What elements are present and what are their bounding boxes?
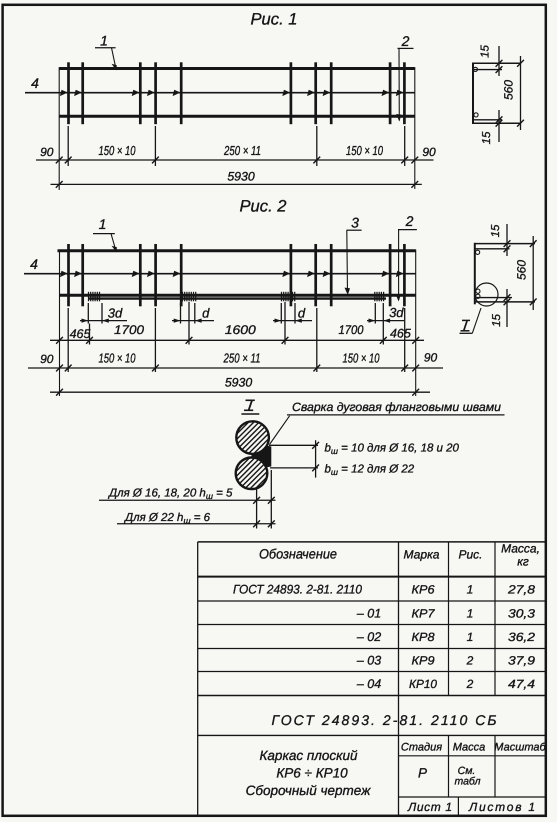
fig2 stirrup 6: [290, 244, 293, 306]
fig2 middle bar (item 4): [24, 273, 416, 275]
table data row 1: [198, 582, 546, 601]
fig1 right end line: [414, 67, 416, 189]
fig1 stirrup 7: [314, 62, 317, 124]
svg-text:Сборочный чертеж: Сборочный чертеж: [246, 783, 371, 798]
svg-text:КР6: КР6: [412, 582, 435, 596]
svg-text:– 03: – 03: [356, 654, 381, 668]
svg-text:15: 15: [480, 45, 492, 58]
fig2 stirrup 7: [314, 244, 317, 306]
svg-text:90: 90: [40, 145, 54, 159]
svg-text:1: 1: [467, 606, 474, 620]
fig2 section bottom bars: [476, 289, 480, 293]
svg-text:кг: кг: [517, 555, 529, 569]
svg-text:– 04: – 04: [356, 677, 381, 691]
table GOST CB row: [198, 712, 546, 735]
svg-text:Каркас плоский: Каркас плоский: [259, 748, 358, 763]
svg-text:27,8: 27,8: [507, 582, 536, 596]
svg-text:36,2: 36,2: [508, 630, 535, 644]
fig2 stirrup 2: [81, 244, 84, 306]
fig1 stirrup 6: [290, 62, 293, 124]
fig1 stirrup 1: [67, 62, 70, 124]
fig2 section dim 15 bottom: [491, 289, 510, 327]
svg-text:37,9: 37,9: [508, 654, 535, 668]
fig2 top chord bar: [58, 249, 416, 252]
table data row 2: [198, 606, 546, 624]
svg-text:2: 2: [405, 213, 414, 229]
fig2 stirrup 3: [139, 244, 142, 306]
fig2 section bottom bar line: [475, 297, 512, 299]
fig2 section top edge: [475, 243, 535, 245]
svg-text:КР8: КР8: [412, 630, 435, 644]
svg-text:Рис. 1: Рис. 1: [251, 11, 298, 29]
fig1 section bottom bar line: [473, 119, 502, 121]
svg-text:2: 2: [466, 677, 474, 691]
fig1 stirrup 10: [403, 62, 406, 124]
svg-text:Рис. 2: Рис. 2: [240, 198, 287, 216]
svg-text:90: 90: [424, 351, 438, 365]
fig1 middle bar (item 4): [25, 92, 415, 94]
svg-text:250 × 11: 250 × 11: [223, 143, 261, 158]
fig2 label 3: [345, 214, 362, 295]
svg-text:1: 1: [467, 630, 474, 644]
svg-text:Листов 1: Листов 1: [468, 800, 535, 814]
fig1 section bottom bar: [474, 113, 478, 117]
fig1 stirrup 2: [81, 62, 84, 124]
svg-text:2: 2: [466, 654, 474, 668]
fig2 stirrup 10: [403, 244, 406, 306]
fig2 additional bar (item 3): [88, 297, 386, 299]
fig1 top chord bar: [59, 67, 415, 70]
fig2 dimension row C (5930): [50, 376, 430, 396]
fig2 left end line: [59, 250, 61, 397]
svg-text:КР7: КР7: [412, 606, 436, 620]
fig2 dimension row A (465/1700/1600/1700/465): [50, 323, 424, 344]
svg-text:d: d: [202, 306, 210, 321]
svg-text:3d: 3d: [389, 305, 404, 320]
fig2 extension lines row B: [68, 308, 405, 372]
weld detail bottom bar circle: [236, 458, 268, 490]
fig1 dimension line 5930: [51, 170, 422, 188]
fig2 label 2: [396, 213, 417, 301]
table header row: [198, 542, 546, 577]
svg-text:4: 4: [30, 256, 38, 272]
svg-text:465: 465: [390, 327, 411, 341]
weld h droplines: [257, 470, 272, 529]
weld detail top bar circle: [236, 421, 269, 454]
svg-text:Масса,: Масса,: [501, 542, 540, 556]
fig1 stirrup 4: [154, 62, 157, 124]
weld fillet (black): [252, 443, 272, 470]
table data row 5: [198, 677, 546, 695]
svg-text:1: 1: [100, 33, 108, 49]
fig2 stirrup 8: [330, 244, 333, 306]
fig1 extension lines: [68, 126, 405, 166]
fig2 mini-dim d (lap 2): [172, 303, 214, 324]
svg-text:90: 90: [422, 145, 436, 159]
svg-text:4: 4: [31, 75, 39, 91]
fig1 section bottom edge: [473, 122, 521, 124]
svg-text:bш = 10 для Ø 16, 18 и 20: bш = 10 для Ø 16, 18 и 20: [325, 443, 460, 457]
fig2 section top bar line: [475, 248, 510, 250]
fig2 mini-dim 3d left: [80, 303, 127, 324]
svg-text:150 × 10: 150 × 10: [346, 143, 384, 158]
fig1 section dim 560: [502, 56, 524, 130]
fig2 right end line: [415, 250, 417, 397]
svg-text:ГОСТ 24893. 2-81. 2110: ГОСТ 24893. 2-81. 2110: [233, 582, 362, 596]
svg-text:250 × 11: 250 × 11: [223, 351, 261, 366]
fig2 extension lines row A: [90, 302, 384, 345]
fig2 weld marks on middle bar: [60, 271, 404, 277]
svg-text:КР9: КР9: [412, 654, 435, 668]
svg-text:d: d: [298, 306, 306, 321]
svg-text:5930: 5930: [225, 376, 253, 390]
svg-text:Для Ø 16, 18, 20 hш = 5: Для Ø 16, 18, 20 hш = 5: [107, 488, 233, 502]
fig1 stirrup 5: [180, 62, 183, 124]
weld detail label I: [241, 400, 259, 414]
fig1 section left edge: [472, 63, 474, 125]
svg-text:15: 15: [491, 314, 503, 327]
fig1 section top bar: [473, 67, 477, 71]
fig2 stirrup 9: [389, 244, 392, 306]
svg-text:5930: 5930: [227, 170, 255, 184]
svg-text:150 × 10: 150 × 10: [343, 351, 381, 366]
svg-text:1600: 1600: [225, 323, 256, 337]
weld note text: [270, 400, 505, 445]
fig2 section dim 15 top: [490, 224, 510, 256]
svg-text:1700: 1700: [114, 323, 144, 337]
fig2 bottom chord bar: [60, 294, 416, 297]
fig1 bottom chord bar: [59, 115, 415, 118]
svg-text:КР10: КР10: [409, 677, 437, 691]
fig2 section detail leader: [472, 308, 481, 333]
svg-text:Лист 1: Лист 1: [407, 800, 452, 814]
fig2 mini-dim 3d right: [367, 303, 404, 324]
fig1 label 1: [95, 33, 117, 71]
svg-text:Сварка дуговая фланговыми швам: Сварка дуговая фланговыми швами: [292, 400, 501, 414]
svg-text:Масштаб: Масштаб: [494, 742, 546, 754]
svg-text:Марка: Марка: [404, 548, 440, 562]
svg-text:560: 560: [515, 260, 529, 280]
fig1 section top bar line: [473, 69, 502, 71]
fig1 dimension line row1: [36, 157, 434, 164]
svg-text:1: 1: [99, 216, 107, 232]
title block stage cells: [399, 735, 547, 797]
table outer and column lines: [198, 542, 546, 816]
svg-text:90: 90: [40, 352, 54, 366]
svg-text:Масса: Масса: [453, 742, 486, 754]
fig1 section dim 15 top: [480, 45, 503, 76]
fig2 section bottom edge: [475, 301, 535, 303]
svg-text:– 01: – 01: [356, 606, 381, 620]
title block name cell: [246, 748, 371, 798]
svg-text:ГОСТ 24893. 2-81. 2110 СБ: ГОСТ 24893. 2-81. 2110 СБ: [272, 712, 497, 728]
fig1 label 2: [396, 33, 413, 122]
weld h line 1: [99, 488, 276, 504]
svg-text:bш = 12 для Ø 22: bш = 12 для Ø 22: [325, 464, 415, 478]
svg-text:табл: табл: [454, 776, 480, 788]
fig1 left end line: [58, 67, 60, 190]
fig1 stirrup 9: [389, 62, 392, 124]
weld b texts: [325, 443, 460, 478]
svg-text:Р: Р: [418, 766, 427, 781]
svg-text:47,4: 47,4: [508, 677, 535, 691]
fig2 mini-dim d (lap 3): [273, 303, 312, 324]
svg-text:15: 15: [490, 224, 502, 237]
title block sheet row: [399, 797, 546, 816]
svg-text:150 × 10: 150 × 10: [99, 143, 137, 158]
svg-text:1: 1: [467, 582, 474, 596]
svg-text:30,3: 30,3: [508, 606, 535, 620]
svg-text:3: 3: [351, 214, 359, 230]
svg-text:Стадия: Стадия: [401, 742, 442, 754]
svg-text:– 02: – 02: [356, 630, 381, 644]
fig1 weld marks on middle bar: [60, 90, 404, 96]
svg-text:2: 2: [401, 33, 410, 49]
fig1 section dim 15 bottom: [481, 110, 502, 144]
svg-text:560: 560: [502, 80, 516, 100]
weld h line 2: [117, 512, 276, 527]
svg-text:КР6 ÷ КР10: КР6 ÷ КР10: [276, 766, 348, 781]
svg-text:465: 465: [70, 327, 91, 341]
fig2 stirrup 1: [67, 244, 70, 306]
fig2 dimension row B (90/150x10/250x11/150x10/90): [28, 351, 443, 372]
table data row 3: [198, 630, 546, 648]
fig1 stirrup 8: [330, 62, 333, 124]
fig2 lap weld hatches: [89, 292, 384, 302]
svg-text:Рис.: Рис.: [458, 548, 482, 562]
fig2 section dim 560: [515, 236, 537, 310]
table data row 4: [198, 654, 546, 672]
svg-text:Обозначение: Обозначение: [259, 547, 337, 562]
fig2 section detail label I: [460, 320, 473, 333]
svg-text:150 × 10: 150 × 10: [99, 351, 137, 366]
weld b dims: [269, 440, 319, 477]
fig2 label 1: [93, 216, 117, 253]
fig1 section top edge: [473, 62, 521, 64]
fig2 section left edge: [474, 243, 476, 304]
fig2 section top bar: [476, 250, 480, 254]
svg-text:15: 15: [481, 131, 493, 144]
fig2 stirrup 4: [154, 244, 157, 306]
fig2 stirrup 5: [180, 244, 183, 306]
fig1 dim texts row1: [40, 143, 436, 159]
fig2 section detail circle I: [475, 283, 498, 306]
svg-text:1700: 1700: [339, 323, 364, 337]
svg-text:3d: 3d: [108, 306, 123, 321]
fig1 stirrup 3: [139, 62, 142, 124]
